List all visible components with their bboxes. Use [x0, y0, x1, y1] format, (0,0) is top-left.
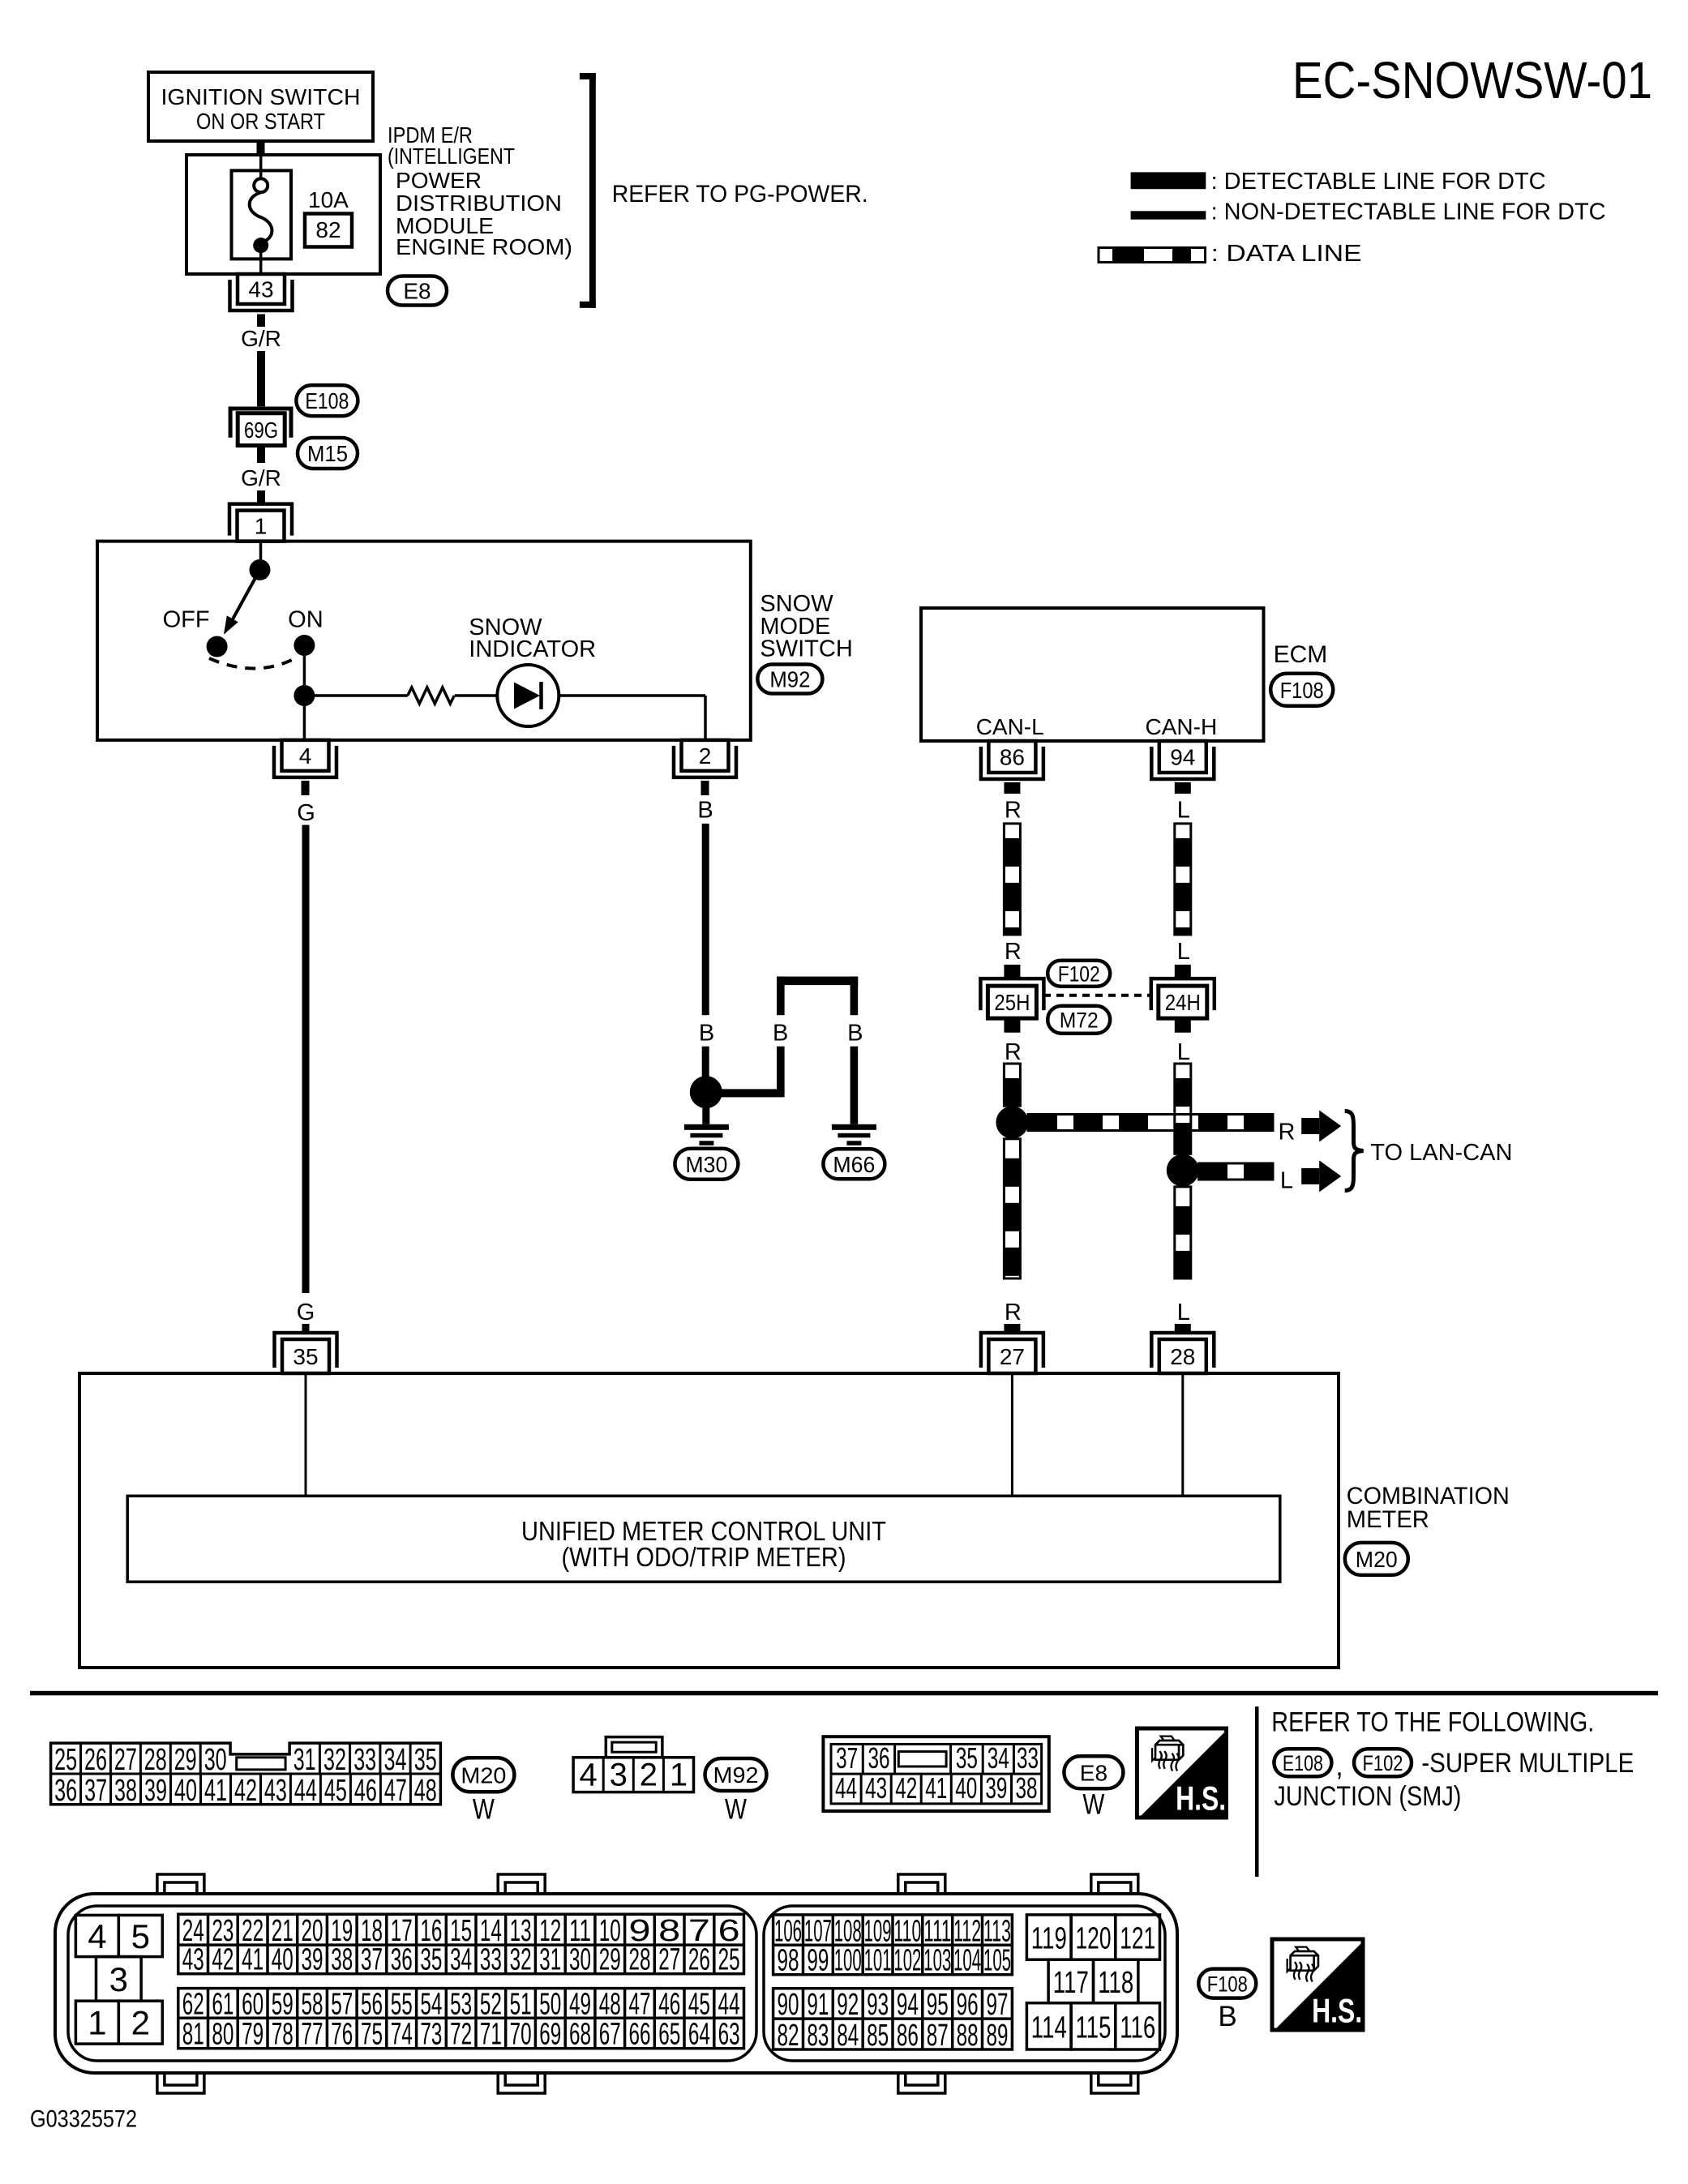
- svg-text:77: 77: [302, 2018, 323, 2052]
- svg-text:L: L: [1177, 939, 1190, 965]
- svg-text:30: 30: [204, 1743, 227, 1777]
- svg-text:47: 47: [384, 1774, 407, 1808]
- svg-text:117: 117: [1053, 1966, 1089, 2000]
- svg-text:54: 54: [420, 1987, 442, 2021]
- svg-text:36: 36: [54, 1774, 77, 1808]
- svg-text:50: 50: [539, 1987, 561, 2021]
- svg-text:86: 86: [1000, 745, 1025, 770]
- svg-text:70: 70: [510, 2018, 532, 2052]
- svg-text:CAN-L: CAN-L: [976, 714, 1044, 739]
- svg-text:95: 95: [927, 1988, 949, 2022]
- svg-text:64: 64: [688, 2018, 710, 2052]
- svg-text:42: 42: [234, 1774, 257, 1808]
- svg-text:27: 27: [658, 1943, 680, 1977]
- svg-text:118: 118: [1098, 1966, 1133, 2000]
- svg-text:53: 53: [450, 1987, 472, 2021]
- svg-text:F108: F108: [1280, 678, 1324, 703]
- svg-text:1: 1: [255, 514, 268, 539]
- svg-text:35: 35: [956, 1741, 978, 1775]
- svg-text:79: 79: [242, 2018, 263, 2052]
- svg-text:M30: M30: [685, 1152, 727, 1177]
- svg-text:DISTRIBUTION: DISTRIBUTION: [396, 191, 562, 216]
- svg-text:CAN-H: CAN-H: [1146, 714, 1218, 739]
- svg-text:57: 57: [331, 1987, 353, 2021]
- svg-text:40: 40: [174, 1774, 197, 1808]
- svg-text:75: 75: [361, 2018, 383, 2052]
- svg-text:44: 44: [718, 1987, 740, 2021]
- svg-text:32: 32: [323, 1743, 346, 1777]
- svg-text:IGNITION SWITCH: IGNITION SWITCH: [161, 84, 361, 109]
- svg-text:52: 52: [480, 1987, 502, 2021]
- svg-text:74: 74: [391, 2018, 413, 2052]
- svg-text:H.S.: H.S.: [1312, 1992, 1362, 2030]
- svg-text:104: 104: [953, 1944, 981, 1978]
- svg-text:25: 25: [54, 1743, 77, 1777]
- svg-text:: DATA LINE: : DATA LINE: [1211, 241, 1362, 267]
- svg-text:38: 38: [331, 1943, 353, 1977]
- svg-text:31: 31: [293, 1743, 316, 1777]
- svg-text:73: 73: [420, 2018, 442, 2052]
- svg-text:REFER TO PG-POWER.: REFER TO PG-POWER.: [612, 181, 868, 208]
- svg-text:63: 63: [718, 2018, 740, 2052]
- svg-text:R: R: [1005, 1039, 1022, 1065]
- svg-text:120: 120: [1076, 1922, 1112, 1956]
- svg-text:G03325572: G03325572: [30, 2106, 137, 2133]
- svg-text:34: 34: [450, 1943, 472, 1977]
- svg-text:99: 99: [807, 1944, 829, 1978]
- svg-text:F102: F102: [1058, 961, 1100, 986]
- svg-text:25H: 25H: [994, 990, 1030, 1015]
- svg-text:E108: E108: [305, 388, 349, 413]
- svg-text:26: 26: [84, 1743, 107, 1777]
- svg-text:114: 114: [1031, 2011, 1067, 2045]
- svg-text:84: 84: [837, 2019, 859, 2053]
- svg-text:49: 49: [569, 1987, 591, 2021]
- svg-text:29: 29: [599, 1943, 621, 1977]
- svg-text:45: 45: [324, 1774, 347, 1808]
- svg-text:W: W: [1082, 1789, 1104, 1821]
- svg-text:: NON-DETECTABLE LINE FOR DTC: : NON-DETECTABLE LINE FOR DTC: [1211, 199, 1606, 225]
- svg-text:42: 42: [895, 1771, 917, 1805]
- svg-text:M72: M72: [1060, 1008, 1099, 1032]
- svg-text:M20: M20: [1356, 1547, 1398, 1572]
- svg-text:76: 76: [331, 2018, 353, 2052]
- svg-text:39: 39: [144, 1774, 167, 1808]
- svg-text:M92: M92: [769, 667, 810, 692]
- svg-text:F108: F108: [1207, 1972, 1248, 1996]
- svg-text:W: W: [725, 1793, 747, 1825]
- svg-text:,: ,: [1335, 1751, 1343, 1782]
- svg-text:B: B: [697, 798, 713, 824]
- svg-text:37: 37: [84, 1774, 107, 1808]
- svg-text:2: 2: [640, 1758, 658, 1793]
- svg-text:94: 94: [897, 1988, 919, 2022]
- svg-text:EC-SNOWSW-01: EC-SNOWSW-01: [1292, 51, 1652, 109]
- svg-text:31: 31: [539, 1943, 561, 1977]
- svg-text:89: 89: [987, 2019, 1009, 2053]
- svg-text:51: 51: [510, 1987, 532, 2021]
- svg-text:97: 97: [987, 1988, 1009, 2022]
- svg-text:G/R: G/R: [241, 326, 281, 351]
- svg-text:L: L: [1280, 1168, 1293, 1194]
- svg-text:91: 91: [807, 1988, 829, 2022]
- svg-text:41: 41: [925, 1771, 947, 1805]
- svg-text:55: 55: [391, 1987, 413, 2021]
- svg-text:ENGINE ROOM): ENGINE ROOM): [396, 234, 572, 259]
- svg-text:121: 121: [1120, 1922, 1155, 1956]
- svg-text:98: 98: [778, 1944, 799, 1978]
- svg-text:69G: 69G: [244, 418, 278, 443]
- svg-text:-SUPER MULTIPLE: -SUPER MULTIPLE: [1421, 1748, 1634, 1779]
- svg-text:82: 82: [315, 217, 341, 242]
- svg-text:1: 1: [88, 2004, 106, 2042]
- svg-text:68: 68: [569, 2018, 591, 2052]
- svg-text:(INTELLIGENT: (INTELLIGENT: [388, 143, 515, 169]
- svg-text:90: 90: [778, 1988, 799, 2022]
- svg-text:67: 67: [599, 2018, 621, 2052]
- svg-text:102: 102: [893, 1944, 921, 1978]
- svg-text:33: 33: [353, 1743, 376, 1777]
- svg-text:2: 2: [131, 2004, 150, 2042]
- svg-text:METER: METER: [1347, 1506, 1429, 1533]
- svg-text:43: 43: [865, 1771, 887, 1805]
- svg-text:REFER TO THE FOLLOWING.: REFER TO THE FOLLOWING.: [1271, 1707, 1594, 1738]
- svg-text:3: 3: [610, 1758, 628, 1793]
- svg-text:37: 37: [361, 1943, 383, 1977]
- svg-text:42: 42: [212, 1943, 233, 1977]
- svg-text:101: 101: [864, 1944, 892, 1978]
- svg-text:38: 38: [1016, 1771, 1038, 1805]
- svg-text:TO LAN-CAN: TO LAN-CAN: [1370, 1140, 1512, 1166]
- svg-text:4: 4: [88, 1917, 106, 1955]
- svg-text:H.S.: H.S.: [1176, 1779, 1226, 1818]
- svg-text:5: 5: [131, 1917, 150, 1955]
- svg-text:86: 86: [897, 2019, 919, 2053]
- svg-text:28: 28: [144, 1743, 167, 1777]
- svg-text:36: 36: [868, 1741, 890, 1775]
- svg-text:R: R: [1279, 1120, 1296, 1146]
- svg-text:34: 34: [384, 1743, 407, 1777]
- svg-text:85: 85: [867, 2019, 889, 2053]
- svg-text:4: 4: [299, 743, 312, 769]
- svg-text:44: 44: [294, 1774, 317, 1808]
- svg-text:83: 83: [807, 2019, 829, 2053]
- svg-text:G: G: [297, 800, 315, 826]
- svg-text:B: B: [847, 1021, 863, 1047]
- svg-text:72: 72: [450, 2018, 472, 2052]
- svg-text:4: 4: [579, 1758, 597, 1793]
- svg-text:24H: 24H: [1165, 990, 1201, 1015]
- svg-text:B: B: [699, 1021, 714, 1047]
- svg-text:L: L: [1177, 798, 1190, 824]
- svg-text:62: 62: [182, 1987, 204, 2021]
- svg-text:M66: M66: [833, 1152, 875, 1177]
- svg-text:25: 25: [718, 1943, 740, 1977]
- svg-text:41: 41: [204, 1774, 227, 1808]
- svg-text:48: 48: [414, 1774, 437, 1808]
- svg-text:94: 94: [1170, 745, 1195, 770]
- svg-text:46: 46: [658, 1987, 680, 2021]
- svg-text:10A: 10A: [308, 187, 349, 212]
- svg-text:43: 43: [182, 1943, 204, 1977]
- svg-text:71: 71: [480, 2018, 502, 2052]
- svg-text:45: 45: [688, 1987, 710, 2021]
- svg-text:2: 2: [699, 743, 712, 769]
- svg-text:65: 65: [658, 2018, 680, 2052]
- svg-text:B: B: [1218, 2001, 1236, 2032]
- svg-text:103: 103: [923, 1944, 951, 1978]
- svg-text:OFF: OFF: [163, 606, 210, 632]
- svg-text:M92: M92: [713, 1762, 759, 1788]
- svg-text:ON: ON: [288, 606, 323, 632]
- svg-text:36: 36: [391, 1943, 413, 1977]
- svg-text:40: 40: [955, 1771, 977, 1805]
- svg-text:33: 33: [1017, 1741, 1039, 1775]
- svg-text:32: 32: [510, 1943, 532, 1977]
- svg-text:39: 39: [302, 1943, 323, 1977]
- svg-text:60: 60: [242, 1987, 263, 2021]
- svg-text:96: 96: [957, 1988, 979, 2022]
- svg-text:M15: M15: [307, 441, 348, 466]
- svg-text:69: 69: [539, 2018, 561, 2052]
- svg-text:93: 93: [867, 1988, 889, 2022]
- svg-text:L: L: [1177, 1039, 1190, 1065]
- svg-text:61: 61: [212, 1987, 233, 2021]
- svg-text:56: 56: [361, 1987, 383, 2021]
- svg-text:46: 46: [354, 1774, 377, 1808]
- svg-text:28: 28: [1170, 1344, 1195, 1369]
- svg-text:R: R: [1005, 1300, 1022, 1325]
- svg-text:R: R: [1005, 798, 1022, 824]
- svg-text:66: 66: [629, 2018, 651, 2052]
- svg-text:38: 38: [114, 1774, 137, 1808]
- svg-text:W: W: [473, 1793, 495, 1825]
- svg-text:43: 43: [264, 1774, 287, 1808]
- svg-text:SWITCH: SWITCH: [760, 636, 852, 662]
- svg-text:E108: E108: [1283, 1751, 1323, 1775]
- svg-text:35: 35: [293, 1344, 318, 1369]
- svg-text:116: 116: [1120, 2011, 1155, 2045]
- svg-text:81: 81: [182, 2018, 204, 2052]
- svg-text:87: 87: [927, 2019, 949, 2053]
- svg-text:POWER: POWER: [396, 168, 482, 193]
- svg-text:G: G: [297, 1300, 315, 1325]
- svg-text:88: 88: [957, 2019, 979, 2053]
- svg-text:G/R: G/R: [241, 465, 281, 490]
- svg-text:JUNCTION (SMJ): JUNCTION (SMJ): [1274, 1781, 1461, 1812]
- svg-text:F102: F102: [1363, 1751, 1403, 1775]
- svg-text:43: 43: [248, 277, 273, 302]
- svg-text:59: 59: [272, 1987, 293, 2021]
- svg-text:ON OR START: ON OR START: [196, 109, 325, 134]
- svg-text:44: 44: [835, 1771, 857, 1805]
- svg-text:37: 37: [836, 1741, 858, 1775]
- svg-text:78: 78: [272, 2018, 293, 2052]
- svg-text:30: 30: [569, 1943, 591, 1977]
- svg-text:28: 28: [629, 1943, 651, 1977]
- svg-text:33: 33: [480, 1943, 502, 1977]
- svg-text:E8: E8: [1080, 1760, 1107, 1785]
- svg-text:47: 47: [629, 1987, 651, 2021]
- svg-text:(WITH ODO/TRIP METER): (WITH ODO/TRIP METER): [562, 1542, 846, 1572]
- svg-text:27: 27: [114, 1743, 137, 1777]
- svg-text:35: 35: [420, 1943, 442, 1977]
- svg-text:26: 26: [688, 1943, 710, 1977]
- svg-text:58: 58: [302, 1987, 323, 2021]
- svg-text:3: 3: [109, 1960, 128, 1998]
- svg-text:82: 82: [778, 2019, 799, 2053]
- svg-text:L: L: [1177, 1300, 1190, 1325]
- svg-text:115: 115: [1076, 2011, 1112, 2045]
- svg-text:39: 39: [985, 1771, 1007, 1805]
- svg-text:B: B: [773, 1021, 788, 1047]
- svg-text:1: 1: [670, 1758, 688, 1793]
- svg-text:INDICATOR: INDICATOR: [469, 636, 596, 662]
- svg-text:29: 29: [174, 1743, 197, 1777]
- svg-text:: DETECTABLE LINE FOR DTC: : DETECTABLE LINE FOR DTC: [1211, 169, 1546, 195]
- svg-text:34: 34: [988, 1741, 1009, 1775]
- svg-text:ECM: ECM: [1274, 641, 1328, 668]
- svg-text:48: 48: [599, 1987, 621, 2021]
- svg-text:R: R: [1005, 939, 1022, 965]
- svg-text:100: 100: [834, 1944, 862, 1978]
- svg-text:105: 105: [983, 1944, 1011, 1978]
- svg-text:E8: E8: [403, 279, 431, 304]
- svg-text:40: 40: [272, 1943, 293, 1977]
- svg-text:35: 35: [414, 1743, 437, 1777]
- svg-text:M20: M20: [461, 1762, 506, 1788]
- svg-text:80: 80: [212, 2018, 233, 2052]
- svg-text:41: 41: [242, 1943, 263, 1977]
- svg-text:27: 27: [1000, 1344, 1025, 1369]
- svg-text:119: 119: [1031, 1922, 1067, 1956]
- svg-text:92: 92: [837, 1988, 859, 2022]
